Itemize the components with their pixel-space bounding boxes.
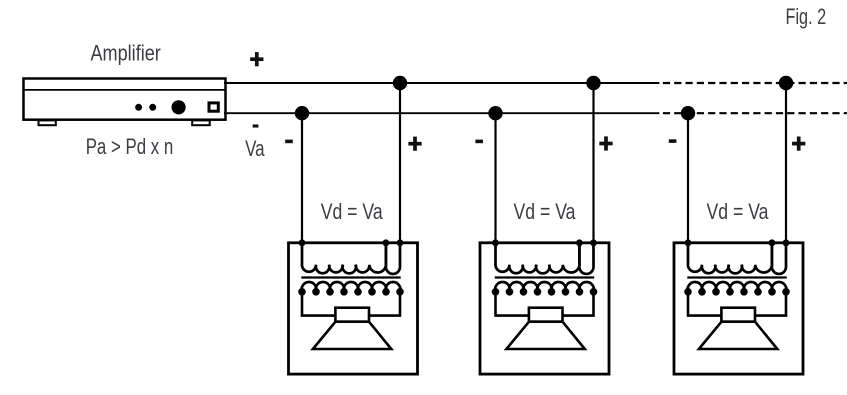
loudspeaker enclosure box LS1 [289, 243, 418, 374]
transformer T2 secondary winding [495, 282, 594, 292]
wire + bus dashed [663, 82, 847, 84]
amplifier left foot [39, 120, 56, 125]
wire + bus solid [224, 82, 659, 84]
label + amplifier output [250, 52, 263, 66]
speaker cone LS2 [506, 322, 584, 349]
transformer T1 secondary winding [302, 282, 401, 292]
wire LS2 + drop [592, 83, 594, 243]
speaker driver magnet LS3 [721, 308, 755, 322]
amplifier front panel line [24, 89, 226, 91]
wire secondary to driver right LS2 [563, 292, 594, 316]
svg-text:Va: Va [245, 136, 265, 161]
wire LS1 - drop [301, 113, 303, 243]
amplifier right foot [192, 120, 210, 125]
speaker cone LS1 [313, 322, 391, 349]
svg-text:Vd = Va: Vd = Va [707, 199, 770, 224]
node dots on enclosure top LS1 [299, 239, 404, 246]
transformer T3 primary end loop [772, 243, 786, 274]
amplifier volume knob [172, 100, 186, 114]
amplifier chassis [24, 79, 226, 120]
svg-text:Amplifier: Amplifier [91, 41, 161, 66]
wire secondary to driver left LS1 [302, 292, 335, 316]
wire LS1 + drop [399, 83, 401, 243]
transformer T1 primary end loop [386, 243, 400, 274]
loudspeaker enclosure box LS3 [674, 243, 803, 374]
wire LS2 - drop [494, 113, 496, 243]
label - LS3 [669, 139, 677, 143]
wire secondary to driver left LS3 [688, 292, 721, 316]
transformer T1 primary winding [302, 243, 386, 274]
svg-text:Pa > Pd x n: Pa > Pd x n [86, 134, 174, 159]
transformer T3 primary winding [688, 243, 772, 274]
amplifier front buttons [135, 104, 156, 111]
wire secondary to driver left LS2 [496, 292, 529, 316]
wire secondary to driver right LS1 [369, 292, 400, 316]
node dots on enclosure top LS2 [492, 239, 597, 246]
svg-text:Vd = Va: Vd = Va [321, 199, 384, 224]
label + LS2 [599, 136, 612, 150]
svg-text:Fig. 2: Fig. 2 [786, 4, 827, 29]
transformer T2 primary winding [496, 243, 580, 274]
speaker driver magnet LS1 [335, 308, 369, 322]
transformer T2 core [495, 276, 594, 278]
transformer T3 core [687, 276, 786, 278]
wire LS3 + drop [785, 83, 787, 243]
label + LS1 [408, 137, 421, 151]
transformer T2 secondary tap dots [492, 288, 598, 296]
amplifier power switch square [209, 103, 218, 111]
wire secondary to driver right LS3 [755, 292, 786, 316]
transformer T3 secondary tap dots [684, 288, 790, 296]
wire - bus dashed [663, 112, 847, 114]
label + LS3 [792, 137, 805, 151]
transformer T1 core [301, 276, 400, 278]
wire - bus solid [224, 112, 659, 114]
svg-text:Vd = Va: Vd = Va [514, 199, 577, 224]
speaker cone LS3 [699, 322, 777, 349]
label - amplifier output [253, 124, 259, 127]
transformer T2 primary end loop [579, 243, 593, 274]
label - LS1 [285, 140, 293, 144]
speaker driver magnet LS2 [529, 308, 563, 322]
transformer T3 secondary winding [688, 282, 787, 292]
node dots on enclosure top LS3 [685, 239, 790, 246]
junction node dots on buses [295, 76, 793, 121]
label - LS2 [475, 140, 483, 144]
loudspeaker enclosure box LS2 [480, 243, 609, 374]
transformer T1 secondary tap dots [298, 288, 404, 296]
wire LS3 - drop [687, 113, 689, 243]
